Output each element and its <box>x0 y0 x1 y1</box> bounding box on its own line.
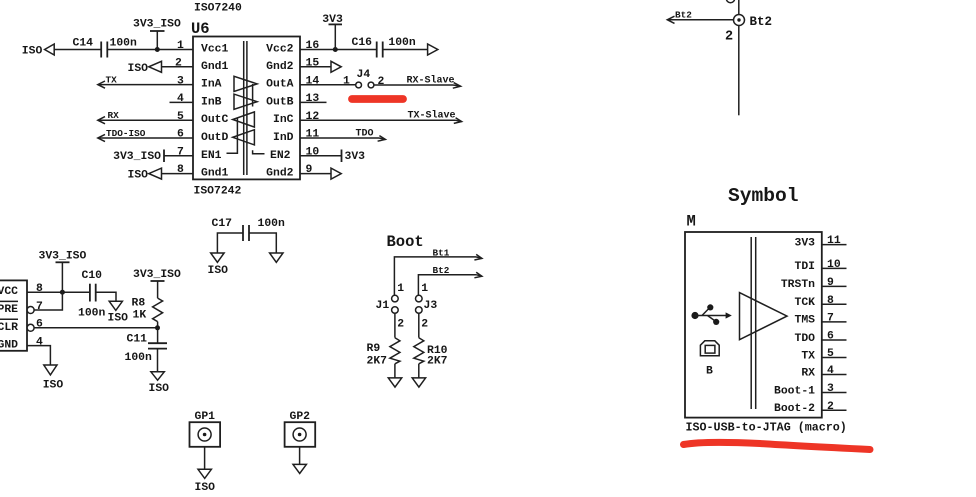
pin name CLR with overline <box>0 319 18 334</box>
svg-text:100n: 100n <box>110 38 138 50</box>
svg-text:ISO: ISO <box>43 379 64 391</box>
svg-text:OutB: OutB <box>266 96 294 108</box>
jumper J1 <box>376 295 399 313</box>
svg-text:Vcc1: Vcc1 <box>201 44 229 56</box>
circled pin Bt2 <box>734 15 745 26</box>
resistor R10 <box>414 338 448 368</box>
svg-text:2: 2 <box>397 318 404 330</box>
svg-text:ISO: ISO <box>149 383 170 395</box>
svg-text:CLR: CLR <box>0 322 18 334</box>
capacitor C14 <box>73 38 138 58</box>
svg-text:ISO: ISO <box>208 265 229 277</box>
amplifier triangle <box>740 293 788 340</box>
svg-text:TX: TX <box>801 350 815 362</box>
pin TRSTn <box>781 277 847 291</box>
svg-text:Bt2: Bt2 <box>675 9 692 20</box>
svg-text:8: 8 <box>177 164 184 176</box>
ground at R10 <box>412 378 425 387</box>
bubble pin7 <box>27 307 34 314</box>
svg-text:TMS: TMS <box>794 315 815 327</box>
svg-text:2K7: 2K7 <box>427 356 448 368</box>
svg-text:OutC: OutC <box>201 114 229 126</box>
isolation barrier U6 <box>244 41 247 175</box>
wire pin8 to C10 <box>27 291 90 293</box>
net flag right of C16 <box>428 44 438 55</box>
jumper J3 <box>416 295 438 313</box>
svg-text:6: 6 <box>177 129 184 141</box>
macro box <box>685 232 822 418</box>
capacitor C10 <box>78 270 106 319</box>
wire pin11 TDO <box>300 128 385 141</box>
svg-text:15: 15 <box>306 58 320 70</box>
wire pin15 <box>300 66 331 68</box>
wire pin16 to C16 <box>300 49 377 51</box>
junction pin8 <box>60 290 65 295</box>
pin TDO <box>794 331 846 345</box>
wire Bt2 <box>418 265 482 295</box>
ground ISO at C10 <box>108 301 129 324</box>
wire pin10 <box>300 155 342 157</box>
svg-text:7: 7 <box>36 301 43 313</box>
svg-text:6: 6 <box>36 319 43 331</box>
wire Bt1 <box>394 247 482 295</box>
svg-text:8: 8 <box>36 283 43 295</box>
svg-text:Bt2: Bt2 <box>750 15 773 29</box>
svg-text:TDO: TDO <box>794 333 815 345</box>
red scribble underline <box>684 442 871 449</box>
svg-text:3: 3 <box>177 75 184 87</box>
svg-text:TX: TX <box>106 74 118 85</box>
svg-text:ISO: ISO <box>195 482 216 494</box>
svg-text:13: 13 <box>306 93 320 105</box>
junction pin16 <box>333 47 338 52</box>
junction C11 <box>155 325 160 330</box>
test point GP1 <box>190 411 221 447</box>
svg-text:5: 5 <box>827 348 834 360</box>
power flag 3V3_ISO at pin7 <box>113 150 164 163</box>
svg-text:Gnd1: Gnd1 <box>201 168 229 180</box>
wire J1 to R9 <box>394 313 396 337</box>
wire pin7 up to junction <box>34 292 62 310</box>
svg-text:100n: 100n <box>258 218 286 230</box>
ground at GP2 <box>293 464 306 473</box>
wire C16 to flag <box>383 49 428 51</box>
pin TMS <box>794 313 846 327</box>
buffer A <box>234 76 257 91</box>
svg-text:7: 7 <box>177 146 184 158</box>
svg-text:2: 2 <box>175 58 182 70</box>
EN1 link <box>227 118 238 154</box>
svg-text:2K7: 2K7 <box>367 356 388 368</box>
svg-text:M: M <box>687 213 696 231</box>
svg-text:8: 8 <box>827 295 834 307</box>
svg-text:1K: 1K <box>133 309 147 321</box>
svg-text:J1: J1 <box>376 300 390 312</box>
wire C17 left to ground <box>217 233 243 253</box>
svg-text:U6: U6 <box>191 20 210 38</box>
wire pin4 to ground <box>27 346 50 365</box>
resistor R9 <box>367 338 400 368</box>
svg-text:ISO-USB-to-JTAG (macro): ISO-USB-to-JTAG (macro) <box>686 421 847 435</box>
wire J4 to RX-Slave <box>374 74 461 88</box>
svg-text:Bt1: Bt1 <box>433 247 450 258</box>
svg-text:2: 2 <box>421 318 428 330</box>
wire J3 to R10 <box>418 313 420 337</box>
pin 3V3 <box>794 235 846 249</box>
wire pin13 stub <box>300 101 327 103</box>
svg-text:7: 7 <box>827 313 834 325</box>
svg-text:VCC: VCC <box>0 286 18 298</box>
svg-text:3: 3 <box>827 383 834 395</box>
wire pin5 RX with arrow <box>98 110 193 124</box>
pin TDI <box>794 259 846 273</box>
pin TCK <box>794 295 846 309</box>
ground ISO at C11 <box>149 372 170 395</box>
buffer C <box>233 112 255 127</box>
svg-text:J3: J3 <box>424 300 438 312</box>
junction pin1 <box>155 47 160 52</box>
net flag pin9 <box>331 168 341 179</box>
resistor R8 <box>132 297 163 321</box>
ground ISO at C17 left <box>208 253 229 277</box>
ground ISO at pin4 <box>43 365 64 391</box>
capacitor C16 <box>352 37 416 57</box>
svg-text:ISO: ISO <box>22 46 43 58</box>
wire pin6 to C11 junction <box>34 327 157 329</box>
wire C11 to ground <box>157 349 159 372</box>
svg-text:EN1: EN1 <box>201 150 222 162</box>
svg-text:InB: InB <box>201 96 222 108</box>
svg-text:RX: RX <box>108 110 120 121</box>
wire GP1 to ground <box>204 447 206 470</box>
svg-text:InA: InA <box>201 79 222 91</box>
svg-text:3V3_ISO: 3V3_ISO <box>39 250 87 262</box>
wire GP2 to ground <box>299 447 301 465</box>
wire C17 right to ground <box>249 233 276 253</box>
svg-text:Boot-2: Boot-2 <box>774 403 815 415</box>
wire pin12 TX-Slave <box>300 110 462 124</box>
capacitor C11 <box>125 333 168 363</box>
svg-text:Gnd1: Gnd1 <box>201 61 229 73</box>
svg-text:Gnd2: Gnd2 <box>266 61 294 73</box>
bubble pin6 <box>27 324 34 331</box>
wire C10 to ground <box>96 292 116 301</box>
svg-text:Vcc2: Vcc2 <box>266 44 294 56</box>
svg-text:C11: C11 <box>127 333 148 345</box>
svg-text:TDO-ISO: TDO-ISO <box>106 128 146 139</box>
ground at C17 right <box>270 253 283 262</box>
svg-text:2: 2 <box>827 401 834 413</box>
power flag 3V3 at pin10 <box>342 150 366 163</box>
test point GP2 <box>285 411 316 447</box>
svg-text:1: 1 <box>177 40 184 52</box>
wire pin3 TX with arrow <box>98 74 193 88</box>
ground at R9 <box>388 378 401 387</box>
ground ISO at GP1 <box>195 469 216 494</box>
wire R10 to ground <box>418 364 420 378</box>
svg-text:3V3_ISO: 3V3_ISO <box>113 151 161 163</box>
svg-text:100n: 100n <box>388 37 416 49</box>
svg-text:InD: InD <box>273 132 294 144</box>
wire pin6 TDO-ISO with arrow <box>98 128 193 142</box>
svg-text:RX: RX <box>801 367 815 379</box>
jumper J4 <box>356 69 374 88</box>
wire pin2 <box>162 66 194 68</box>
svg-text:3V3_ISO: 3V3_ISO <box>133 19 181 31</box>
svg-text:Bt2: Bt2 <box>433 265 450 276</box>
red mark over J4 <box>352 95 403 103</box>
svg-text:OutA: OutA <box>266 79 294 91</box>
svg-text:GND: GND <box>0 340 18 352</box>
svg-text:10: 10 <box>827 259 841 271</box>
pin Boot-1 <box>774 383 847 397</box>
svg-text:ISO: ISO <box>128 170 149 182</box>
pin Boot-2 <box>774 401 847 415</box>
IC U6 box <box>193 37 300 180</box>
svg-text:RX-Slave: RX-Slave <box>407 74 455 86</box>
power flag 3V3_ISO <box>39 250 87 292</box>
wire C14 to pin1 <box>107 49 193 51</box>
svg-text:TRSTn: TRSTn <box>781 279 815 291</box>
svg-text:ISO: ISO <box>108 313 129 325</box>
connector box <box>0 280 27 350</box>
svg-text:5: 5 <box>177 111 184 123</box>
power flag 3V3_ISO at R8 <box>133 269 181 298</box>
svg-text:4: 4 <box>36 336 43 348</box>
svg-text:ISO7242: ISO7242 <box>194 185 242 197</box>
svg-text:TDI: TDI <box>794 261 815 273</box>
net flag ISO at C14 <box>22 44 54 58</box>
svg-text:10: 10 <box>306 146 320 158</box>
svg-text:3V3: 3V3 <box>794 237 815 249</box>
net flag ISO at pin2 <box>128 61 162 75</box>
svg-text:R9: R9 <box>367 343 381 355</box>
svg-text:9: 9 <box>306 164 313 176</box>
svg-text:J4: J4 <box>357 69 371 81</box>
svg-text:R8: R8 <box>132 297 146 309</box>
wire R8 to junction <box>157 322 159 343</box>
pin TX <box>801 348 846 362</box>
wire vertical Bt2 <box>738 0 740 115</box>
svg-text:3V3: 3V3 <box>345 151 366 163</box>
svg-text:11: 11 <box>306 129 320 141</box>
wire ISO flag to C14 <box>54 49 100 51</box>
svg-text:EN2: EN2 <box>270 150 291 162</box>
capacitor C17 <box>212 218 286 241</box>
svg-text:9: 9 <box>827 277 834 289</box>
svg-text:TDO: TDO <box>356 128 374 139</box>
pin RX <box>801 365 846 379</box>
svg-text:4: 4 <box>827 365 834 377</box>
svg-text:PRE: PRE <box>0 304 18 316</box>
net flag pin15 <box>331 61 341 72</box>
svg-text:1: 1 <box>343 75 350 87</box>
svg-text:TCK: TCK <box>794 297 815 309</box>
svg-text:2: 2 <box>378 76 385 88</box>
EN2 link <box>253 84 265 154</box>
partial glyph at top edge <box>726 0 734 3</box>
pin name PRE with overline <box>0 301 18 316</box>
svg-text:GP1: GP1 <box>195 411 216 423</box>
wire pin4 stub <box>170 101 194 103</box>
svg-text:11: 11 <box>827 235 841 247</box>
svg-text:ISO7240: ISO7240 <box>194 2 242 14</box>
svg-text:OutD: OutD <box>201 132 229 144</box>
svg-text:GP2: GP2 <box>290 411 311 423</box>
svg-text:1: 1 <box>421 283 428 295</box>
svg-text:B: B <box>706 365 713 377</box>
net flag ISO at pin8 <box>128 168 162 182</box>
svg-text:100n: 100n <box>125 352 153 364</box>
power flag 3V3_ISO at pin1 <box>133 19 181 50</box>
USB-B icon <box>700 341 719 378</box>
svg-text:2: 2 <box>725 29 733 44</box>
svg-text:3V3_ISO: 3V3_ISO <box>133 269 181 281</box>
svg-text:TX-Slave: TX-Slave <box>408 110 456 122</box>
svg-text:ISO: ISO <box>128 63 149 75</box>
svg-text:Gnd2: Gnd2 <box>266 168 294 180</box>
svg-text:4: 4 <box>177 93 184 105</box>
wire pin7 <box>164 155 193 157</box>
svg-text:Boot-1: Boot-1 <box>774 385 815 397</box>
wire pin14 to J4 <box>300 84 356 86</box>
buffer D <box>233 130 255 145</box>
svg-text:12: 12 <box>306 111 320 123</box>
power flag 3V3 <box>322 14 343 50</box>
buffer B <box>234 94 257 109</box>
svg-text:InC: InC <box>273 114 294 126</box>
svg-text:Boot: Boot <box>387 233 424 251</box>
wire pin9 <box>300 173 331 175</box>
svg-text:14: 14 <box>306 75 320 87</box>
svg-text:C14: C14 <box>73 38 94 50</box>
svg-text:C10: C10 <box>82 270 103 282</box>
svg-text:C16: C16 <box>352 37 373 49</box>
svg-text:1: 1 <box>397 283 404 295</box>
svg-text:C17: C17 <box>212 218 233 230</box>
USB icon <box>691 304 731 325</box>
svg-text:Symbol: Symbol <box>728 185 799 207</box>
svg-text:100n: 100n <box>78 307 106 319</box>
wire Bt2 left with arrow <box>667 9 733 23</box>
svg-text:6: 6 <box>827 331 834 343</box>
wire R9 to ground <box>394 364 396 378</box>
wire pin8 <box>162 173 194 175</box>
isolation barrier <box>751 237 756 409</box>
